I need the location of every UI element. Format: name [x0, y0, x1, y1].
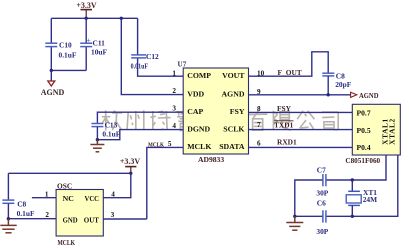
- capacitor C13: [91, 121, 120, 139]
- ground symbol crystal: [286, 216, 303, 230]
- pin number OSC 2: [45, 211, 49, 219]
- svg-text:4: 4: [172, 122, 176, 130]
- wire pin5 MCLK riser: [147, 147, 183, 219]
- svg-text:F_OUT: F_OUT: [278, 68, 302, 77]
- junction DGND/C13: [96, 138, 99, 141]
- svg-text:+3.3V: +3.3V: [120, 157, 141, 166]
- junction C8cap/GND: [7, 217, 10, 220]
- svg-text:0.1uF: 0.1uF: [59, 51, 77, 60]
- svg-text:+3.3V: +3.3V: [76, 1, 97, 10]
- svg-text:SCLK: SCLK: [223, 124, 244, 133]
- pin number 1: [172, 70, 176, 78]
- svg-text:C11: C11: [93, 39, 106, 48]
- capacitor C8 bypass: [2, 200, 35, 219]
- svg-text:OUT: OUT: [84, 215, 100, 224]
- wire C8 bottom: [327, 76, 329, 95]
- capacitor C11 polarized: [80, 37, 107, 57]
- svg-text:NC: NC: [63, 194, 75, 203]
- svg-text:MCLK: MCLK: [58, 239, 76, 247]
- svg-text:FSY: FSY: [277, 104, 292, 113]
- wire pin8 FSY: [249, 111, 353, 113]
- svg-text:3: 3: [111, 211, 115, 219]
- wire W2 to C6: [295, 215, 353, 217]
- svg-text:SDATA: SDATA: [219, 142, 245, 151]
- wire GND pin2: [8, 218, 56, 220]
- svg-text:4: 4: [111, 190, 115, 198]
- svg-text:C13: C13: [105, 121, 118, 130]
- svg-text:24M: 24M: [363, 195, 377, 204]
- net label FSY: [277, 104, 292, 113]
- svg-text:0.1uF: 0.1uF: [17, 209, 35, 218]
- svg-text:U7: U7: [178, 61, 187, 69]
- wire XTAL1 riser: [352, 155, 386, 180]
- junction rail/+3.3V: [85, 17, 88, 20]
- svg-text:7: 7: [257, 121, 261, 129]
- svg-text:C7: C7: [317, 165, 326, 174]
- svg-text:P0.7: P0.7: [357, 109, 371, 118]
- IC U7 AD9833 DDS: [178, 61, 249, 165]
- IC C8051F060 microcontroller: [345, 104, 400, 165]
- wire OUT to MCLK riser: [103, 218, 147, 220]
- svg-text:AGND: AGND: [222, 89, 245, 98]
- svg-text:VCC: VCC: [85, 194, 100, 203]
- wire pin4 DGND down: [97, 130, 183, 140]
- AGND symbol left: [41, 81, 65, 97]
- junction rail/VDD: [120, 17, 123, 20]
- svg-text:2: 2: [172, 87, 176, 95]
- svg-text:30P: 30P: [316, 227, 328, 236]
- pin number 7: [257, 121, 261, 129]
- svg-text:VOUT: VOUT: [222, 71, 245, 80]
- wire pin10 VOUT to C8: [249, 52, 329, 76]
- power +3.3V top: [76, 1, 97, 18]
- svg-text:2: 2: [45, 211, 49, 219]
- pin number 4: [172, 122, 176, 130]
- wire C11 leads: [85, 18, 87, 70]
- svg-text:P0.4: P0.4: [357, 143, 371, 152]
- wire C8cap top lead: [7, 173, 9, 200]
- capacitor C12: [131, 52, 159, 70]
- wire C13 bottom to ground: [96, 127, 98, 140]
- svg-text:GND: GND: [63, 215, 78, 224]
- svg-text:20pF: 20pF: [335, 80, 352, 89]
- svg-text:AD9833: AD9833: [198, 155, 224, 164]
- wire pin3 CAP to C13: [97, 112, 183, 123]
- svg-text:30P: 30P: [316, 188, 328, 197]
- svg-text:TXD1: TXD1: [274, 120, 294, 129]
- junction ground rail/W2: [293, 215, 296, 218]
- svg-text:MCLK: MCLK: [187, 142, 211, 151]
- svg-text:XTAL2: XTAL2: [388, 118, 397, 145]
- pin number 3: [172, 105, 176, 113]
- junction C8/AGND wire: [327, 93, 330, 96]
- svg-text:C8051F060: C8051F060: [345, 157, 380, 165]
- junction XTAL1/crystal: [351, 178, 354, 181]
- net label RXD1: [277, 137, 297, 146]
- svg-text:0.1uF: 0.1uF: [102, 129, 120, 138]
- pin number 9: [257, 88, 261, 96]
- svg-text:P0.5: P0.5: [357, 126, 371, 135]
- AGND power port right: [351, 91, 379, 100]
- capacitor C8 20pF: [322, 72, 351, 89]
- wire C12 drop: [138, 18, 184, 76]
- pin number OSC 1: [45, 190, 49, 198]
- wire VCC riser: [103, 173, 131, 197]
- wire pin9 AGND: [249, 94, 351, 96]
- net label F_OUT: [278, 68, 302, 77]
- watermark 杭州将睿科技有限公司: [102, 110, 338, 130]
- svg-text:1: 1: [172, 70, 176, 78]
- svg-text:AGND: AGND: [41, 88, 65, 97]
- svg-text:1: 1: [45, 190, 49, 198]
- pin number 6: [257, 140, 261, 148]
- svg-text:DGND: DGND: [187, 124, 210, 133]
- svg-text:CAP: CAP: [187, 107, 203, 116]
- svg-text:3: 3: [172, 105, 176, 113]
- svg-text:6: 6: [257, 140, 261, 148]
- wire W1 to C7: [295, 180, 353, 216]
- pin number OSC 3: [111, 211, 115, 219]
- ground symbol bottom-left: [0, 219, 16, 233]
- wire pin7 SCLK: [249, 129, 353, 131]
- net label TXD1 with overline: [274, 120, 294, 129]
- svg-text:C10: C10: [59, 41, 72, 50]
- pin number 10: [257, 70, 265, 78]
- oscillator OSC: [56, 182, 103, 248]
- svg-text:VDD: VDD: [187, 89, 204, 98]
- wire C10 leads: [50, 18, 52, 70]
- junction AGND node: [50, 69, 53, 72]
- pin number 2: [172, 87, 176, 95]
- svg-text:C12: C12: [146, 52, 159, 61]
- crystal XT1 24M: [346, 180, 377, 216]
- svg-text:8: 8: [257, 105, 261, 113]
- pin number OSC 4: [111, 190, 115, 198]
- junction +3.3V/top wire: [129, 172, 132, 175]
- capacitor C10: [45, 41, 77, 60]
- svg-text:0.01uF: 0.01uF: [131, 61, 149, 70]
- net label MCLK: [148, 141, 165, 148]
- wire top rail to C8cap: [8, 172, 130, 174]
- pin number 5: [168, 140, 172, 148]
- svg-text:FSY: FSY: [230, 107, 245, 116]
- pin number 8: [257, 105, 261, 113]
- wire C8cap bottom lead: [7, 204, 9, 219]
- svg-text:AGND: AGND: [359, 91, 379, 100]
- ground symbol below C13: [90, 140, 104, 152]
- svg-text:+: +: [87, 37, 91, 45]
- svg-text:COMP: COMP: [187, 71, 211, 80]
- svg-text:C8: C8: [17, 200, 26, 209]
- wire C10-C11 bottom: [51, 69, 86, 71]
- power +3.3V OSC: [120, 157, 141, 174]
- wire VDD drop to pin2: [121, 18, 183, 94]
- svg-text:RXD1: RXD1: [277, 137, 297, 146]
- capacitor C7 30P: [316, 165, 328, 197]
- wire XTAL2 riser: [352, 155, 398, 216]
- wire NC stub: [32, 197, 56, 199]
- wire power rail: [51, 17, 137, 19]
- svg-text:10uF: 10uF: [91, 48, 108, 57]
- capacitor C6 30P: [316, 198, 328, 235]
- wire pin6 SDATA: [249, 146, 353, 148]
- junction crystal/W2: [351, 215, 354, 218]
- svg-text:C6: C6: [317, 198, 326, 207]
- wire AGND stub: [50, 70, 52, 80]
